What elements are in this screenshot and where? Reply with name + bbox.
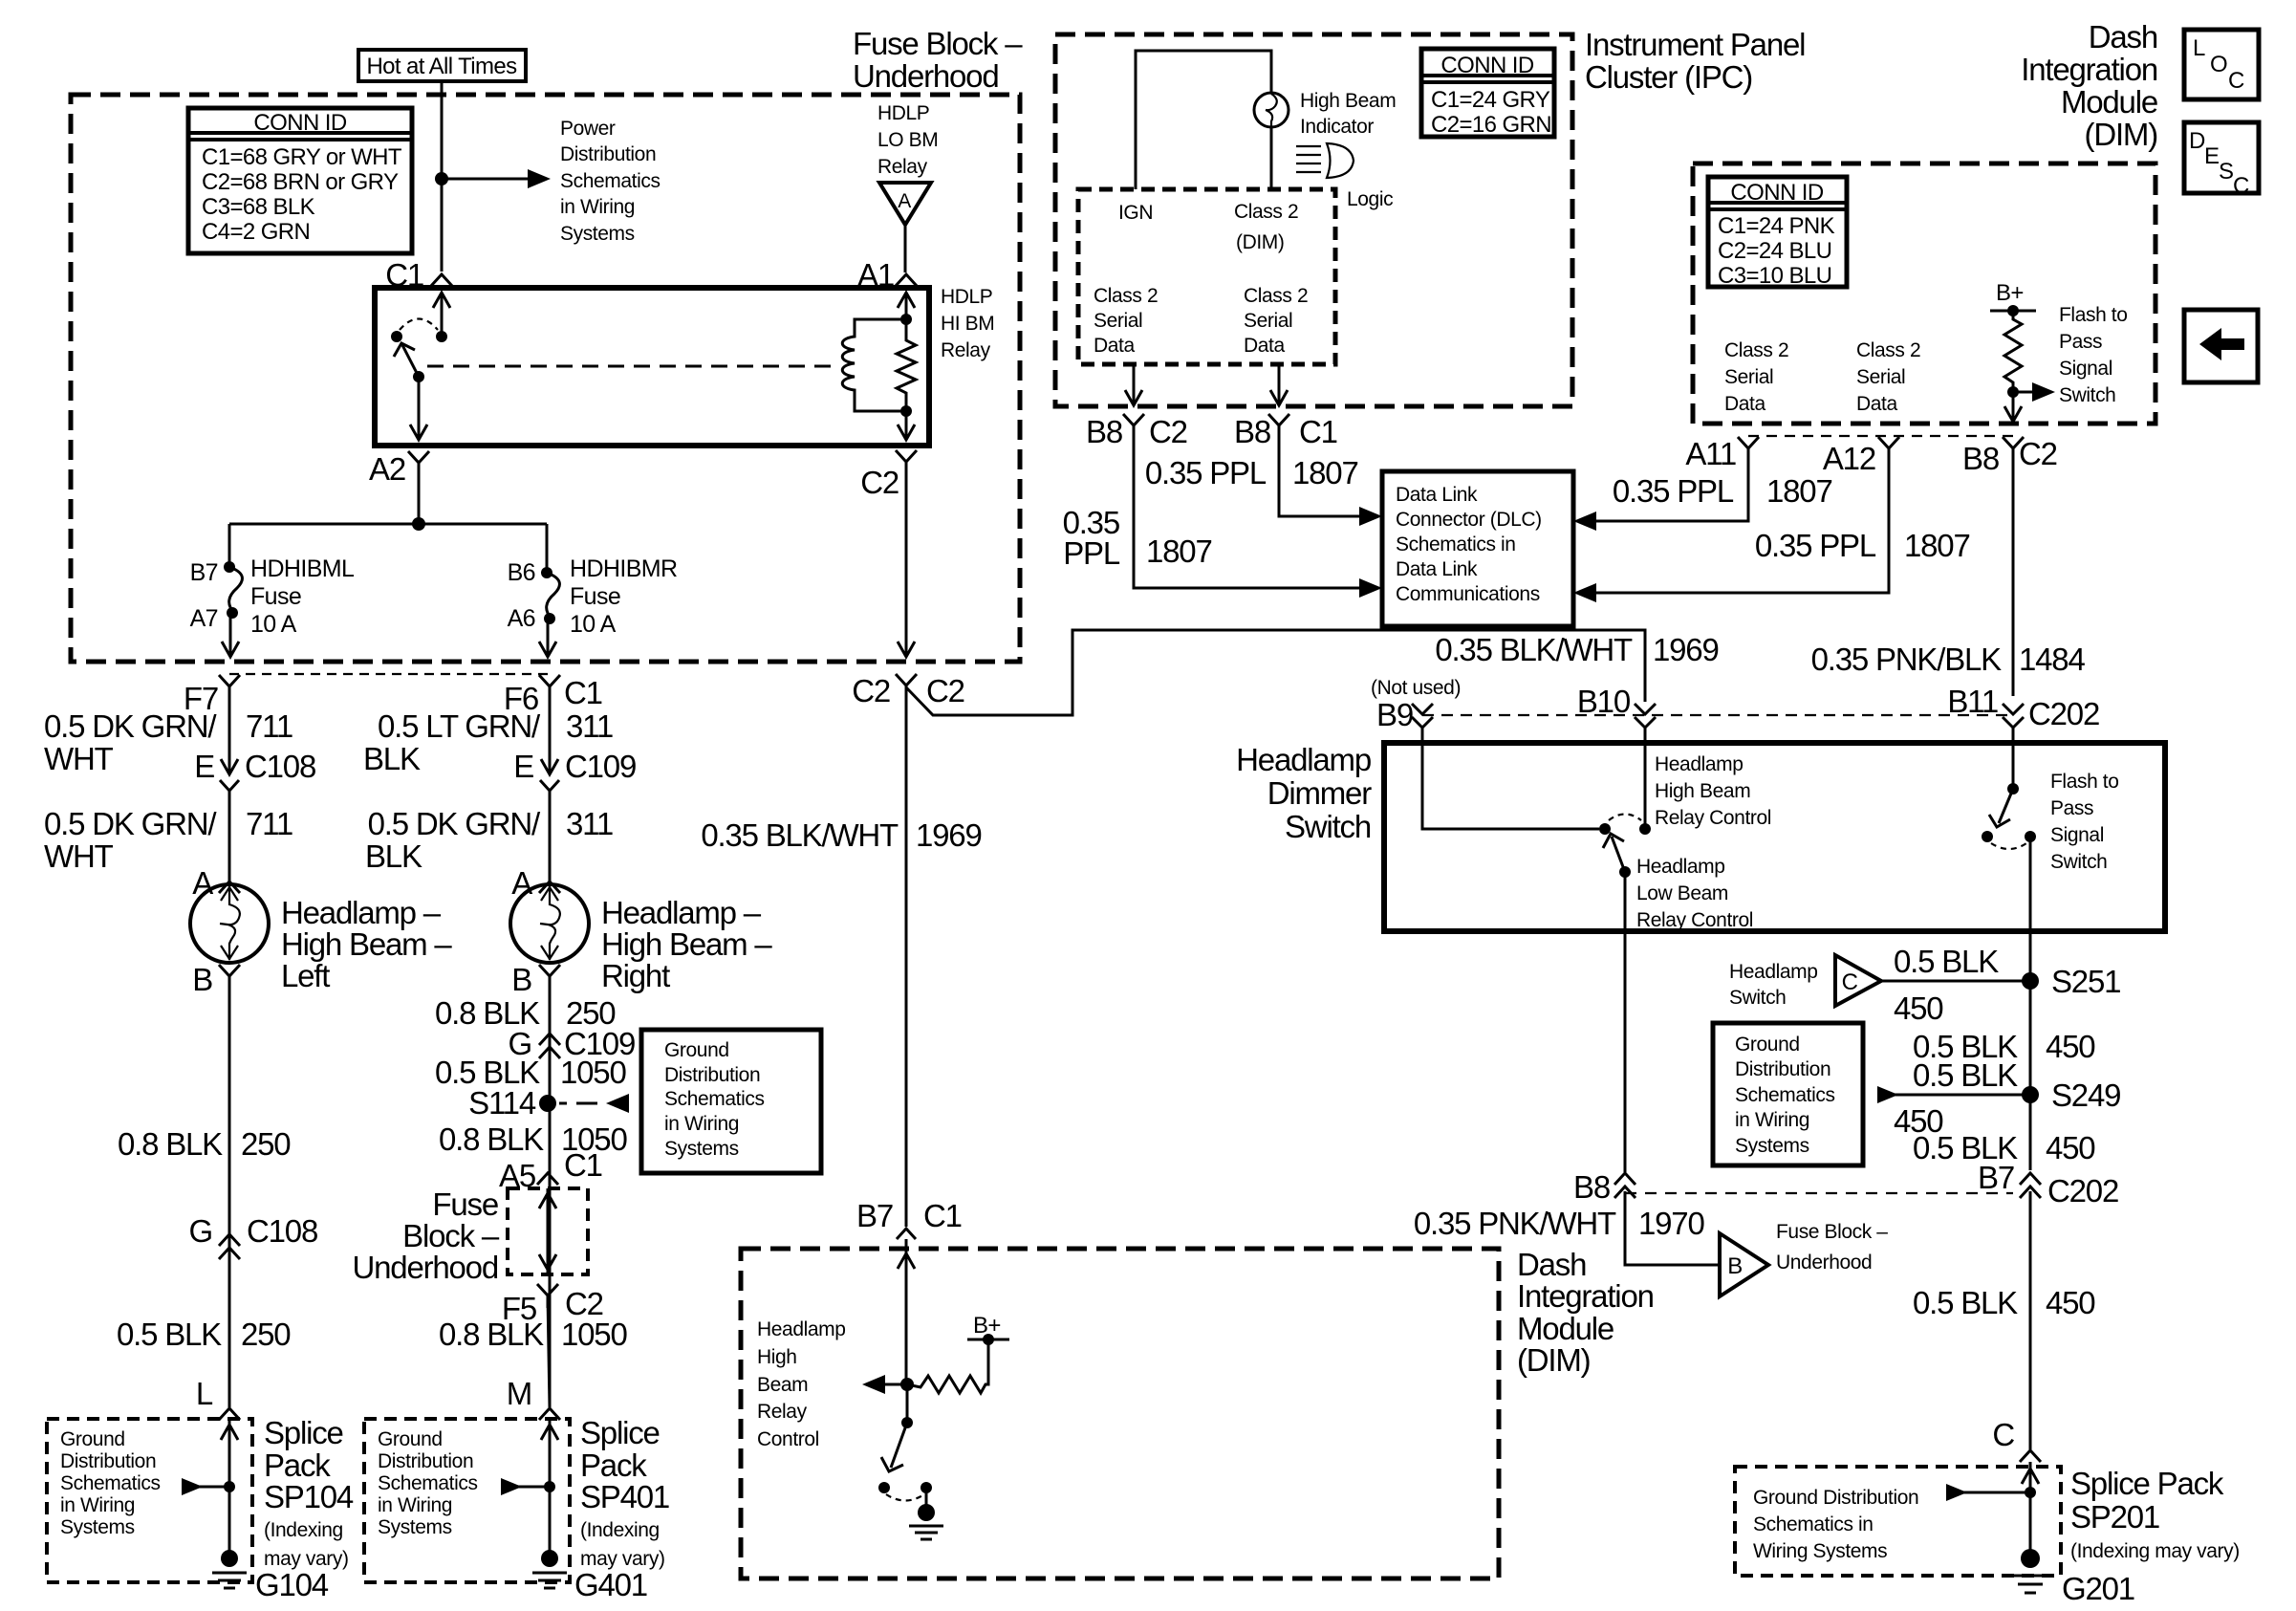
svg-text:B+: B+ — [1996, 280, 2024, 306]
wire B down to L — [228, 976, 231, 1407]
svg-text:may vary): may vary) — [580, 1548, 665, 1570]
switch pivot node (DIM bottom) — [901, 1417, 913, 1428]
svg-text:0.35 PNK/BLK: 0.35 PNK/BLK — [1811, 642, 2003, 677]
svg-text:A1: A1 — [857, 257, 894, 293]
svg-text:Systems: Systems — [60, 1516, 135, 1538]
svg-text:Headlamp: Headlamp — [757, 1318, 846, 1340]
svg-text:Module: Module — [1517, 1311, 1614, 1346]
connector A chevron — [219, 882, 240, 893]
connector B chevron — [219, 965, 240, 989]
svg-text:Schematics: Schematics — [60, 1472, 161, 1494]
wire from Hot at All Times down to relay — [441, 81, 444, 272]
svg-text:G401: G401 — [574, 1567, 647, 1602]
connector B11 double chevron — [2003, 704, 2024, 738]
fuse block underhood small dashed box — [508, 1188, 588, 1274]
svg-text:Module: Module — [2061, 84, 2157, 120]
svg-text:HI BM: HI BM — [941, 313, 994, 335]
headlamp high beam right bulb circle — [510, 884, 589, 963]
svg-text:(Indexing: (Indexing — [580, 1519, 660, 1541]
svg-text:Class 2: Class 2 — [1724, 339, 1788, 361]
svg-text:C2: C2 — [852, 673, 890, 708]
svg-text:L: L — [2193, 35, 2205, 61]
arrow left (relay control output) — [872, 1383, 907, 1386]
SP401 pointer arrow — [501, 1478, 522, 1495]
svg-text:Systems: Systems — [1735, 1135, 1809, 1157]
arrow wire to Power Distribution note — [442, 178, 531, 181]
svg-text:0.35 PPL: 0.35 PPL — [1755, 528, 1876, 563]
wire IPC serial data left out — [1133, 364, 1136, 405]
connector B chevron (right) — [539, 965, 560, 989]
ground G104 — [221, 1550, 238, 1567]
wire through fuse block — [547, 1188, 550, 1274]
splice S251 node — [2022, 972, 2039, 990]
svg-text:HDHIBML: HDHIBML — [250, 555, 355, 582]
relay A1 wire inside — [905, 293, 908, 319]
svg-text:Schematics: Schematics — [378, 1472, 478, 1494]
svg-text:Systems: Systems — [560, 223, 635, 245]
svg-text:0.8 BLK: 0.8 BLK — [439, 1317, 544, 1352]
fuse block underhood dashed box — [71, 95, 1020, 662]
svg-text:Left: Left — [281, 958, 330, 993]
wire to ground (DIM bottom) — [925, 1488, 928, 1509]
svg-text:C4=2 GRN: C4=2 GRN — [202, 219, 310, 245]
svg-text:S: S — [2219, 159, 2233, 185]
svg-text:C1: C1 — [1299, 414, 1337, 449]
svg-text:0.5 BLK: 0.5 BLK — [117, 1317, 222, 1352]
connector row dashed line A11-B8 — [1748, 435, 2013, 437]
SP201 pointer arrow — [1946, 1484, 1967, 1501]
svg-text:Headlamp –: Headlamp – — [281, 895, 442, 930]
svg-text:B: B — [1727, 1253, 1742, 1279]
svg-text:1807: 1807 — [1904, 528, 1970, 563]
svg-text:Data: Data — [1724, 393, 1765, 415]
connector C202 double chevron up — [2020, 1173, 2041, 1198]
ground distribution note box (right) — [1713, 1023, 1863, 1165]
svg-text:Distribution: Distribution — [60, 1450, 156, 1472]
off-page connector B triangle — [1720, 1233, 1768, 1296]
svg-text:Splice: Splice — [264, 1415, 343, 1450]
connector A1 chevron — [896, 274, 917, 286]
svg-text:Pass: Pass — [2059, 331, 2102, 353]
svg-text:0.35 BLK/WHT: 0.35 BLK/WHT — [701, 817, 899, 853]
flash switch motion dashed arc — [1991, 843, 2026, 849]
svg-text:Fuse Block –: Fuse Block – — [853, 26, 1023, 61]
IPC logic dashed box — [1078, 189, 1335, 364]
svg-text:Relay: Relay — [941, 339, 991, 361]
svg-text:250: 250 — [241, 1317, 291, 1352]
svg-text:Flash to: Flash to — [2059, 304, 2128, 326]
svg-text:711: 711 — [246, 806, 292, 841]
svg-text:High Beam –: High Beam – — [601, 926, 772, 962]
high beam indicator bulb — [1254, 93, 1289, 127]
flash switch right node — [2025, 831, 2036, 842]
wire A11 to DLC — [1589, 448, 1748, 521]
svg-text:Splice: Splice — [580, 1415, 660, 1450]
svg-text:High: High — [757, 1346, 797, 1368]
LOC box — [2184, 30, 2259, 99]
fuse HDHIBML element — [229, 567, 243, 613]
connector F7 — [219, 675, 240, 708]
resistor flash to pass — [2004, 311, 2022, 392]
connector M chevron — [539, 1408, 560, 1420]
wire low beam control down — [1624, 872, 1627, 1172]
wire C108 to headlamp A — [228, 791, 231, 885]
svg-text:C1: C1 — [564, 675, 602, 710]
svg-text:A7: A7 — [190, 605, 218, 632]
connector row dashed line B8-C202 — [1625, 1192, 2013, 1194]
wire B10 into box — [1644, 728, 1647, 829]
SP104 junction node — [224, 1481, 235, 1492]
svg-text:M: M — [507, 1376, 531, 1411]
wire 1969 branch diagonal to dimmer B10 — [906, 630, 1645, 715]
splice S114 node — [539, 1095, 556, 1112]
svg-text:Relay Control: Relay Control — [1655, 807, 1771, 829]
svg-text:Power: Power — [560, 118, 616, 140]
svg-text:B9: B9 — [1376, 697, 1413, 732]
svg-text:Relay: Relay — [877, 156, 928, 178]
svg-text:Integration: Integration — [2021, 52, 2157, 87]
svg-text:450: 450 — [2046, 1285, 2095, 1320]
svg-text:Relay: Relay — [757, 1401, 808, 1423]
SP104 pointer arrow — [182, 1478, 203, 1495]
svg-text:Pack: Pack — [580, 1448, 647, 1483]
connector B8 double chevron up — [1614, 1173, 1635, 1198]
svg-text:C: C — [1992, 1417, 2014, 1452]
svg-text:Serial: Serial — [1724, 366, 1773, 388]
svg-text:1970: 1970 — [1638, 1206, 1704, 1241]
svg-text:0.35 BLK/WHT: 0.35 BLK/WHT — [1435, 632, 1633, 667]
wire IPC serial data right out — [1278, 364, 1281, 405]
svg-text:Class 2: Class 2 — [1244, 285, 1308, 307]
wire to left fuse — [228, 524, 231, 567]
svg-text:Headlamp –: Headlamp – — [601, 895, 762, 930]
svg-text:G104: G104 — [255, 1567, 329, 1602]
svg-text:450: 450 — [1894, 991, 1943, 1026]
svg-text:B7: B7 — [1978, 1160, 2014, 1195]
fuse HDHIBMR terminal A6 node — [544, 613, 555, 624]
wire B8 to fuse block B — [1625, 1191, 1718, 1265]
svg-text:450: 450 — [2046, 1130, 2095, 1165]
high beam switch right node — [1639, 823, 1651, 835]
svg-text:0.8 BLK: 0.8 BLK — [118, 1126, 223, 1162]
svg-text:Distribution: Distribution — [378, 1450, 473, 1472]
svg-text:High Beam: High Beam — [1655, 780, 1750, 802]
wire C202 down to C — [2029, 1191, 2032, 1449]
wire A12 to DLC — [1589, 448, 1889, 593]
flash switch blade — [1999, 789, 2013, 823]
svg-text:B8: B8 — [1234, 414, 1270, 449]
svg-text:C1: C1 — [923, 1198, 962, 1233]
svg-text:Signal: Signal — [2059, 358, 2112, 380]
flash switch top node — [2007, 783, 2019, 795]
wire C109 to headlamp A — [549, 791, 552, 885]
svg-text:Fuse: Fuse — [250, 583, 301, 610]
wire B9 into box to switch — [1422, 728, 1599, 829]
svg-text:Fuse: Fuse — [570, 583, 620, 610]
wire F7 to C108 — [228, 686, 231, 774]
svg-text:Distribution: Distribution — [1735, 1058, 1830, 1080]
connector A2 chevron — [408, 451, 429, 476]
data link connector note box — [1382, 471, 1573, 626]
svg-text:C: C — [1842, 969, 1858, 995]
svg-text:1969: 1969 — [1653, 632, 1719, 667]
svg-text:0.5 BLK: 0.5 BLK — [1913, 1057, 2018, 1093]
svg-text:B: B — [511, 962, 531, 997]
svg-text:0.35 PPL: 0.35 PPL — [1145, 455, 1267, 490]
svg-text:Signal: Signal — [2050, 824, 2104, 846]
svg-text:Distribution: Distribution — [560, 143, 656, 165]
connector B8 C1 (IPC) — [1268, 414, 1289, 447]
headlamp switch triangle C — [1835, 955, 1881, 1006]
svg-text:C3=10 BLU: C3=10 BLU — [1718, 263, 1831, 289]
svg-text:A: A — [898, 190, 911, 212]
svg-text:Dash: Dash — [2089, 19, 2157, 54]
connector row dashed line F7-F6 — [229, 673, 550, 675]
svg-text:1050: 1050 — [561, 1317, 627, 1352]
svg-text:in Wiring: in Wiring — [664, 1113, 739, 1135]
wire A6 down to edge — [547, 619, 550, 657]
svg-text:L: L — [196, 1376, 213, 1411]
svg-text:Ground: Ground — [664, 1039, 729, 1061]
svg-text:Fuse Block –: Fuse Block – — [1776, 1221, 1888, 1243]
connector G C109 double chevron — [539, 1034, 560, 1058]
svg-text:Headlamp: Headlamp — [1236, 742, 1371, 777]
svg-text:C: C — [2228, 68, 2244, 94]
svg-text:Systems: Systems — [378, 1516, 452, 1538]
svg-text:311: 311 — [566, 708, 613, 744]
svg-text:in Wiring: in Wiring — [560, 196, 635, 218]
svg-text:Communications: Communications — [1396, 583, 1540, 605]
svg-text:Class 2: Class 2 — [1856, 339, 1920, 361]
svg-text:Data: Data — [1856, 393, 1897, 415]
wire B8 C2 down to C202 — [2012, 448, 2015, 696]
svg-text:(DIM): (DIM) — [1517, 1342, 1590, 1378]
connector A11 — [1738, 437, 1759, 470]
svg-text:S249: S249 — [2051, 1078, 2120, 1113]
SP201 junction node — [2025, 1487, 2036, 1498]
svg-text:O: O — [2210, 52, 2227, 77]
svg-text:Control: Control — [757, 1428, 819, 1450]
headlamp dimmer switch box — [1384, 743, 2165, 931]
svg-text:WHT: WHT — [44, 838, 114, 874]
svg-text:Dash: Dash — [1517, 1247, 1586, 1282]
svg-text:Logic: Logic — [1347, 188, 1393, 210]
instrument panel cluster dashed box — [1055, 34, 1572, 406]
svg-text:B7: B7 — [856, 1198, 893, 1233]
svg-text:C2: C2 — [1149, 414, 1187, 449]
svg-text:High Beam –: High Beam – — [281, 926, 452, 962]
relay switch blade — [402, 345, 419, 377]
svg-text:10 A: 10 A — [570, 611, 617, 638]
relay switch motion dashed arc — [400, 319, 438, 331]
svg-text:D: D — [2189, 128, 2205, 154]
svg-text:may vary): may vary) — [264, 1548, 349, 1570]
svg-text:Schematics in: Schematics in — [1396, 533, 1516, 555]
wire B down to M — [549, 976, 552, 1407]
relay C2 wire inside — [905, 411, 908, 440]
svg-text:Schematics in: Schematics in — [1753, 1513, 1874, 1535]
svg-text:Switch: Switch — [1285, 809, 1371, 844]
svg-text:C3=68 BLK: C3=68 BLK — [202, 194, 315, 220]
svg-text:Underhood: Underhood — [353, 1250, 499, 1285]
wire F5 to M — [548, 1295, 550, 1407]
svg-text:711: 711 — [246, 708, 292, 744]
svg-text:HDLP: HDLP — [877, 102, 929, 124]
svg-text:Block –: Block – — [402, 1218, 500, 1253]
svg-text:S251: S251 — [2051, 964, 2120, 999]
svg-text:Ground Distribution: Ground Distribution — [1753, 1487, 1918, 1509]
svg-text:Systems: Systems — [664, 1138, 739, 1160]
svg-text:C2: C2 — [926, 673, 964, 708]
svg-text:Schematics: Schematics — [560, 170, 661, 192]
splice pack SP201 dashed box — [1735, 1467, 2061, 1576]
svg-text:High Beam: High Beam — [1300, 90, 1396, 112]
nav arrow box — [2184, 310, 2258, 382]
ground G201 — [2021, 1549, 2040, 1568]
svg-text:C: C — [2233, 173, 2249, 199]
svg-text:SP104: SP104 — [264, 1479, 354, 1514]
svg-text:C202: C202 — [2028, 696, 2099, 731]
svg-text:A2: A2 — [369, 451, 405, 487]
svg-text:Splice Pack: Splice Pack — [2070, 1466, 2224, 1501]
high beam switch blade — [1612, 837, 1625, 872]
fuse HDHIBML terminal B7 node — [224, 561, 235, 573]
wire A triangle to A1 — [904, 225, 907, 272]
switch right contact node — [921, 1482, 932, 1493]
wire A7 down to edge — [229, 613, 232, 657]
connector C2 chevron (relay) — [896, 450, 917, 475]
svg-text:450: 450 — [2046, 1029, 2095, 1064]
junction node at fuse split — [412, 517, 425, 531]
connector E C108 arrow and chevron — [220, 759, 239, 791]
svg-text:C1=68 GRY or WHT: C1=68 GRY or WHT — [202, 144, 402, 170]
svg-text:Switch: Switch — [1729, 987, 1786, 1009]
svg-text:Data: Data — [1094, 335, 1135, 357]
svg-text:G: G — [189, 1213, 212, 1249]
svg-text:(DIM): (DIM) — [1236, 231, 1284, 253]
svg-text:1969: 1969 — [916, 817, 982, 853]
SP401 junction node — [544, 1481, 555, 1492]
svg-text:Class 2: Class 2 — [1094, 285, 1158, 307]
wire bulb to class2 — [1270, 127, 1273, 189]
high beam switch left node — [1599, 823, 1611, 835]
wire headlamp switch to S251 — [1881, 980, 2030, 983]
arrow right (flash output) — [2013, 391, 2036, 394]
svg-text:B7: B7 — [190, 559, 218, 586]
svg-text:Low Beam: Low Beam — [1636, 882, 1728, 904]
svg-text:1484: 1484 — [2019, 642, 2085, 677]
svg-text:C202: C202 — [2047, 1173, 2118, 1208]
svg-text:CONN ID: CONN ID — [253, 110, 346, 136]
svg-text:Class 2: Class 2 — [1234, 201, 1298, 223]
svg-text:Switch: Switch — [2059, 384, 2115, 406]
fuse HDHIBML terminal A7 node — [227, 607, 238, 619]
relay coil top node — [900, 314, 912, 325]
wire A2 down to split — [418, 476, 421, 524]
wire to switch pivot — [906, 1384, 909, 1423]
svg-text:LO BM: LO BM — [877, 129, 938, 151]
connector G C108 double chevron — [219, 1234, 240, 1259]
switch blade (DIM bottom) — [891, 1423, 907, 1468]
connector F5 C2 chevron — [537, 1284, 558, 1308]
connector row dashed line B9-B11 — [1422, 714, 2013, 716]
svg-text:BLK: BLK — [365, 838, 422, 874]
wire IGN loop — [1136, 51, 1271, 189]
svg-text:C1=24 GRY: C1=24 GRY — [1431, 87, 1550, 113]
svg-text:C2=24 BLU: C2=24 BLU — [1718, 238, 1831, 264]
svg-text:Pass: Pass — [2050, 797, 2093, 819]
wire flash switch down — [2029, 837, 2032, 1170]
B+ node (DIM bottom) — [983, 1334, 994, 1345]
svg-text:B: B — [192, 962, 212, 997]
svg-text:(DIM): (DIM) — [2085, 117, 2157, 152]
svg-text:Relay Control: Relay Control — [1636, 909, 1753, 931]
svg-text:C1: C1 — [564, 1147, 602, 1183]
wire M into SP401 — [549, 1420, 552, 1558]
svg-text:Ground: Ground — [378, 1428, 443, 1450]
svg-text:C109: C109 — [565, 749, 636, 784]
headlamp right filament — [540, 886, 560, 960]
svg-text:(Indexing may vary): (Indexing may vary) — [2070, 1540, 2240, 1562]
svg-text:B6: B6 — [508, 559, 535, 586]
CONN ID box (DIM) — [1708, 177, 1847, 287]
svg-text:C108: C108 — [245, 749, 315, 784]
connector A12 — [1878, 437, 1899, 470]
connector L chevron — [219, 1408, 240, 1420]
svg-text:Distribution: Distribution — [664, 1064, 760, 1086]
ground distribution note box (S114) — [641, 1030, 821, 1173]
svg-text:Underhood: Underhood — [853, 58, 999, 94]
svg-text:Pack: Pack — [264, 1448, 331, 1483]
wire C2 down to fuse block edge — [905, 462, 908, 657]
S114 dashed pointer — [559, 1102, 597, 1105]
headlamp logic icon — [1327, 143, 1354, 178]
connector B7 C1 chevron — [897, 1229, 916, 1239]
svg-text:1050: 1050 — [560, 1055, 626, 1090]
svg-text:1807: 1807 — [1292, 455, 1358, 490]
svg-text:10 A: 10 A — [250, 611, 297, 638]
svg-text:Headlamp: Headlamp — [1729, 961, 1818, 983]
svg-text:in Wiring: in Wiring — [60, 1494, 135, 1516]
svg-text:Indicator: Indicator — [1300, 116, 1374, 138]
svg-text:CONN ID: CONN ID — [1440, 53, 1533, 78]
junction node (flash to pass) — [2007, 386, 2019, 398]
svg-text:Fuse: Fuse — [432, 1186, 498, 1222]
svg-text:G201: G201 — [2062, 1571, 2134, 1606]
relay switch common wire — [441, 293, 444, 337]
DESC box — [2184, 122, 2259, 193]
wire into DIM box — [905, 1239, 908, 1384]
svg-text:B8: B8 — [1573, 1169, 1610, 1205]
relay blade node — [413, 371, 424, 382]
high beam switch blade node — [1619, 866, 1631, 878]
connector B8 C2 (IPC) — [1123, 414, 1144, 447]
junction node (DIM bottom) — [900, 1378, 914, 1391]
svg-text:B8: B8 — [1086, 414, 1122, 449]
svg-text:0.35 PNK/WHT: 0.35 PNK/WHT — [1414, 1206, 1616, 1241]
svg-text:Dimmer: Dimmer — [1267, 775, 1372, 811]
connector B9 double chevron — [1412, 704, 1433, 738]
svg-text:IGN: IGN — [1118, 202, 1153, 224]
svg-text:C108: C108 — [247, 1213, 317, 1249]
svg-text:Serial: Serial — [1244, 310, 1292, 332]
svg-text:0.35 PPL: 0.35 PPL — [1613, 473, 1734, 509]
svg-text:CONN ID: CONN ID — [1730, 180, 1823, 206]
svg-text:in Wiring: in Wiring — [1735, 1109, 1809, 1131]
connector A chevron (right) — [539, 882, 560, 893]
svg-text:Underhood: Underhood — [1776, 1252, 1872, 1274]
high beam switch motion dashed arc — [1609, 815, 1641, 821]
